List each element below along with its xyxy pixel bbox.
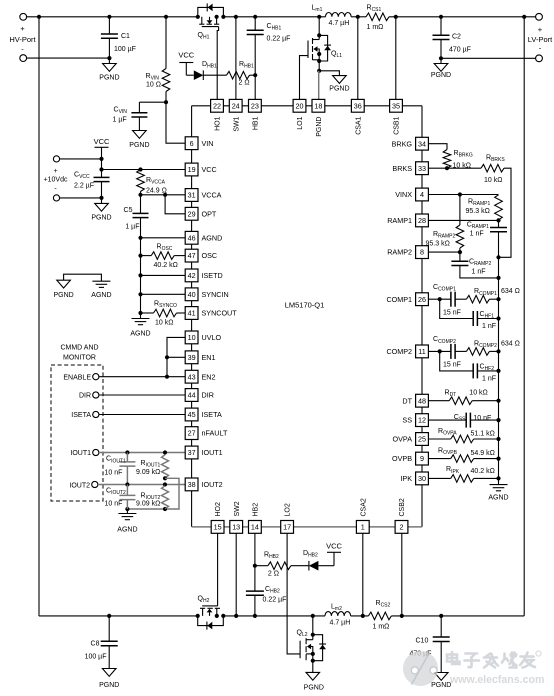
pin 29 OPT (left) xyxy=(185,207,217,220)
capacitor C2 470uF xyxy=(433,17,471,59)
pin 37 IOUT1 (left) xyxy=(185,446,222,459)
pin 20 LO1 (top) xyxy=(293,99,306,129)
svg-text:100 µF: 100 µF xyxy=(114,46,136,53)
svg-text:HO2: HO2 xyxy=(215,502,222,517)
svg-text:17: 17 xyxy=(283,523,291,532)
svg-text:9.09 kΩ: 9.09 kΩ xyxy=(136,469,160,476)
svg-text:34: 34 xyxy=(418,139,426,148)
pin 1 CSA2 (bottom) xyxy=(356,498,369,533)
svg-text:2.2 µF: 2.2 µF xyxy=(74,183,94,190)
node VIN junction xyxy=(164,100,168,104)
diode DHB1 xyxy=(186,61,217,80)
svg-text:EN1: EN1 xyxy=(202,353,216,362)
svg-text:LV-Port: LV-Port xyxy=(528,35,553,44)
svg-text:AGND: AGND xyxy=(488,495,508,502)
pin 44 DIR (left) xyxy=(185,389,214,402)
svg-text:+: + xyxy=(20,24,25,33)
wire HV- (PGND) from HV-Port to C1 xyxy=(27,56,112,60)
wire CSA2: pin 1 to rail xyxy=(362,533,364,616)
svg-text:1 nF: 1 nF xyxy=(482,323,496,330)
svg-text:HB1: HB1 xyxy=(253,116,260,130)
resistor ROVPB 54.9k xyxy=(428,447,500,462)
svg-text:PGND: PGND xyxy=(304,685,324,692)
svg-text:UVLO: UVLO xyxy=(202,333,222,342)
svg-text:PGND: PGND xyxy=(431,682,451,689)
resistor RDT 10k xyxy=(428,389,500,404)
svg-text:4: 4 xyxy=(420,190,424,199)
svg-text:LO2: LO2 xyxy=(285,503,292,516)
svg-text:10 kΩ: 10 kΩ xyxy=(484,177,502,184)
svg-text:40.2 kΩ: 40.2 kΩ xyxy=(471,468,495,475)
svg-text:14: 14 xyxy=(251,523,259,532)
svg-text:634 Ω: 634 Ω xyxy=(501,288,520,295)
wire VCCA to pin 31 xyxy=(138,193,185,197)
pin 34 BRKG (right) xyxy=(392,137,429,150)
svg-text:PGND: PGND xyxy=(329,86,349,93)
pin 10 UVLO (left) xyxy=(185,331,221,344)
port HV-Port xyxy=(9,13,36,61)
svg-text:CMMD AND: CMMD AND xyxy=(60,345,98,352)
svg-text:38: 38 xyxy=(188,480,196,489)
wire PGND to pin 18 xyxy=(318,71,320,100)
wire LV- from LV-Port to C2 xyxy=(441,57,536,59)
resistor RCS1 1mohm xyxy=(366,5,389,32)
svg-text:MONITOR: MONITOR xyxy=(63,355,96,362)
pin 36 CSA1 (top) xyxy=(351,99,364,134)
svg-text:VINX: VINX xyxy=(395,190,412,199)
pin 25 OVPA (right) xyxy=(393,433,429,446)
svg-text:11: 11 xyxy=(418,347,425,356)
svg-text:54.9 kΩ: 54.9 kΩ xyxy=(471,450,495,457)
svg-text:36: 36 xyxy=(354,101,362,110)
svg-text:OSC: OSC xyxy=(202,251,218,260)
resistor ROSC 40.2k xyxy=(138,244,185,270)
svg-text:634 Ω: 634 Ω xyxy=(501,340,520,347)
capacitor CHF1 1nF xyxy=(440,299,501,330)
pin 42 ISETD (left) xyxy=(185,269,222,282)
capacitor CVCC 2.2uF xyxy=(74,170,110,198)
wire VINX from pin 4 xyxy=(428,192,498,196)
node COMP1 junction xyxy=(428,297,451,301)
svg-text:IOUT1: IOUT1 xyxy=(202,448,223,457)
resistor RSYNCO 10k xyxy=(138,301,185,327)
wire HB2: pin 14 down xyxy=(253,533,257,591)
svg-text:10 Ω: 10 Ω xyxy=(146,82,161,89)
capacitor CHB2 0.22uF xyxy=(246,586,286,616)
transistor QH1 xyxy=(196,3,226,40)
svg-text:12: 12 xyxy=(418,416,426,425)
wire right AGND bus xyxy=(498,278,500,485)
pin 11 COMP2 (right) xyxy=(386,345,428,358)
svg-text:44: 44 xyxy=(188,391,196,400)
svg-text:15: 15 xyxy=(214,523,222,532)
ground tie PGND-AGND legend xyxy=(53,274,111,299)
svg-text:15 nF: 15 nF xyxy=(443,310,461,317)
ground PGND below C2 xyxy=(431,56,451,79)
svg-text:30: 30 xyxy=(418,474,426,483)
svg-text:10 kΩ: 10 kΩ xyxy=(469,389,487,396)
ground AGND analog bus xyxy=(130,319,150,338)
svg-text:100 µF: 100 µF xyxy=(85,654,107,661)
svg-text:51.1 kΩ: 51.1 kΩ xyxy=(471,431,495,438)
svg-text:C2: C2 xyxy=(452,34,461,41)
svg-text:AGND: AGND xyxy=(202,233,223,242)
pin 15 HO2 (bottom) xyxy=(211,502,224,533)
svg-text:1 µF: 1 µF xyxy=(125,224,139,231)
svg-text:28: 28 xyxy=(418,216,426,225)
svg-text:CSB2: CSB2 xyxy=(399,498,406,516)
wire OPT to pin 29 xyxy=(165,195,185,214)
pin 30 IPK (right) xyxy=(400,472,428,485)
node ISETA input xyxy=(71,411,185,419)
resistor RIOUT1 9.09k xyxy=(136,455,169,478)
svg-text:PGND: PGND xyxy=(91,215,111,222)
node AGND bus / RBRKS join xyxy=(496,255,500,259)
svg-text:+: + xyxy=(53,168,57,175)
pin 41 SYNCOUT (left) xyxy=(185,307,237,320)
resistor RIPK 40.2k xyxy=(428,466,500,482)
box CMMD AND MONITOR xyxy=(51,345,103,502)
svg-text:LO1: LO1 xyxy=(297,116,304,129)
wire RAMP2 from pin 8 xyxy=(428,250,462,254)
svg-text:VCC: VCC xyxy=(94,137,110,146)
svg-text:RAMP1: RAMP1 xyxy=(387,216,412,225)
capacitor CHB1 0.22uF xyxy=(247,17,291,75)
wire ISETD to pin 42 xyxy=(138,273,185,277)
pin 43 EN2 (left) xyxy=(185,370,215,383)
pin 23 HB1 (top) xyxy=(249,99,262,130)
svg-text:1 nF: 1 nF xyxy=(470,231,484,238)
svg-text:C5: C5 xyxy=(124,207,133,214)
svg-text:33: 33 xyxy=(418,164,426,173)
svg-text:SYNCIN: SYNCIN xyxy=(202,290,229,299)
pin 46 AGND (left) xyxy=(185,231,222,244)
svg-text:BRKG: BRKG xyxy=(392,139,413,148)
svg-text:35: 35 xyxy=(392,101,400,110)
pin 48 DT (right) xyxy=(402,394,428,407)
svg-text:AGND: AGND xyxy=(117,527,137,534)
pin 12 SS (right) xyxy=(402,414,428,427)
pin 9 OVPB (right) xyxy=(392,452,428,465)
pin 27 nFAULT (left) xyxy=(185,427,228,440)
svg-text:DT: DT xyxy=(402,396,412,405)
svg-text:1: 1 xyxy=(361,523,365,532)
resistor RBRKS 10k xyxy=(428,155,511,258)
svg-text:37: 37 xyxy=(188,448,196,457)
svg-text:4.7 µH: 4.7 µH xyxy=(329,20,350,27)
wire RIOUT1 to AGND bus xyxy=(125,476,179,511)
pin 31 VCCA (left) xyxy=(185,189,221,202)
svg-text:PGND: PGND xyxy=(99,75,119,82)
svg-text:OVPA: OVPA xyxy=(393,435,413,444)
svg-text:9.09 kΩ: 9.09 kΩ xyxy=(136,500,160,507)
svg-text:2 Ω: 2 Ω xyxy=(239,80,250,87)
capacitor CVIN 1uF xyxy=(113,102,167,130)
ground PGND below QL2 xyxy=(304,672,324,691)
power VCC for DHB1 xyxy=(178,51,194,76)
diode DHB2 xyxy=(303,550,334,571)
wire VCC node to pin 19 xyxy=(99,159,185,172)
svg-text:VCC: VCC xyxy=(178,51,194,60)
svg-text:+: + xyxy=(538,25,543,34)
pin 2 CSB2 (bottom) xyxy=(395,498,408,533)
pin 22 HO1 (top) xyxy=(211,99,224,131)
svg-text:40.2 kΩ: 40.2 kΩ xyxy=(154,262,178,269)
svg-text:45: 45 xyxy=(188,410,196,419)
svg-text:9: 9 xyxy=(420,454,424,463)
svg-text:HV-Port: HV-Port xyxy=(9,35,36,44)
pin 45 ISETA (left) xyxy=(185,408,222,421)
svg-text:10: 10 xyxy=(188,333,196,342)
svg-text:1 µF: 1 µF xyxy=(113,117,127,124)
op-amp U1 LM5170-Q1 IC body xyxy=(192,106,422,527)
svg-text:10 nF: 10 nF xyxy=(473,415,491,422)
svg-text:ENABLE: ENABLE xyxy=(63,374,91,381)
ground PGND below CVIN xyxy=(129,131,149,150)
node COMP2 junction xyxy=(428,349,451,353)
capacitor CCOMP2 15nF xyxy=(433,336,461,369)
pin 6 VIN (left) xyxy=(185,137,213,150)
wire AGND to pin 46 xyxy=(138,236,185,240)
svg-text:AGND: AGND xyxy=(130,331,150,338)
ground AGND IOUT networks xyxy=(117,509,137,534)
svg-text:0.22 µF: 0.22 µF xyxy=(267,36,291,43)
port +10Vdc supply xyxy=(44,156,68,201)
wire bottom rail xyxy=(39,614,524,618)
resistor RHB1 2ohm xyxy=(203,61,255,87)
svg-text:COMP2: COMP2 xyxy=(386,347,412,356)
resistor RCS2 1mohm xyxy=(368,600,391,631)
wire left HV+ bus xyxy=(38,17,40,615)
pin 17 LO2 (bottom) xyxy=(281,503,294,533)
svg-text:6: 6 xyxy=(190,139,194,148)
ground PGND below C10 xyxy=(431,673,451,690)
svg-text:29: 29 xyxy=(188,209,196,218)
wire HV+ top rail xyxy=(23,15,539,19)
wire CSA1: rail to pin 36 xyxy=(357,17,359,100)
svg-text:DIR: DIR xyxy=(202,391,214,400)
wire analog bus xyxy=(140,238,142,319)
svg-text:ISETD: ISETD xyxy=(202,271,223,280)
power VCC above CVCC xyxy=(94,137,110,159)
pin 14 HB2 (bottom) xyxy=(249,503,262,534)
svg-text:41: 41 xyxy=(188,309,196,318)
wire HO1: QH1 gate to pin 22 xyxy=(217,27,218,100)
svg-text:IPK: IPK xyxy=(400,474,412,483)
svg-text:IOUT1: IOUT1 xyxy=(70,450,91,457)
node IOUT2 output xyxy=(69,481,185,489)
node DIR input xyxy=(79,392,185,400)
inductor Lm2 4.7uH xyxy=(325,604,351,627)
svg-text:IOUT2: IOUT2 xyxy=(69,482,90,489)
capacitor CHF2 1nF xyxy=(440,351,501,382)
svg-text:10 nF: 10 nF xyxy=(105,470,123,477)
pin 47 OSC (left) xyxy=(185,249,217,262)
svg-text:19: 19 xyxy=(188,165,196,174)
svg-text:PGND: PGND xyxy=(431,72,451,79)
svg-text:VCC: VCC xyxy=(326,542,342,551)
pin 4 VINX (right) xyxy=(395,188,428,201)
wire HB1 to pin 23 xyxy=(254,75,256,99)
capacitor C10 470uF xyxy=(410,616,450,673)
svg-text:23: 23 xyxy=(251,101,259,110)
resistor ROVPA 51.1k xyxy=(428,428,500,443)
svg-text:PGND: PGND xyxy=(99,682,119,689)
svg-text:22: 22 xyxy=(213,101,221,110)
svg-text:CSB1: CSB1 xyxy=(394,116,401,134)
wire CSB2: pin 2 to rail xyxy=(401,533,403,616)
resistor RRAMP1 95.3k xyxy=(466,195,503,220)
svg-text:RAMP2: RAMP2 xyxy=(387,248,412,257)
svg-text:26: 26 xyxy=(418,295,426,304)
svg-text:HB2: HB2 xyxy=(253,503,260,517)
capacitor CRAMP1 1nF xyxy=(467,220,507,278)
wire RAMP1 from pin 28 xyxy=(428,218,500,222)
capacitor C1 100uF xyxy=(101,17,136,58)
pin 28 RAMP1 (right) xyxy=(387,214,428,227)
svg-text:10 kΩ: 10 kΩ xyxy=(155,320,173,327)
svg-text:C8: C8 xyxy=(91,641,100,648)
pin 8 RAMP2 (right) xyxy=(387,246,428,259)
pin 38 IOUT2 (left) xyxy=(185,478,222,491)
svg-text:4.7 µH: 4.7 µH xyxy=(330,620,351,627)
ground AGND right bus xyxy=(488,485,508,502)
svg-text:2 Ω: 2 Ω xyxy=(268,571,279,578)
svg-text:VCCA: VCCA xyxy=(202,191,222,200)
svg-text:VCC: VCC xyxy=(202,165,217,174)
svg-text:www.elecfans.com: www.elecfans.com xyxy=(449,674,544,686)
ground PGND at QL1 source xyxy=(319,71,349,93)
svg-text:20: 20 xyxy=(296,101,304,110)
svg-text:39: 39 xyxy=(188,353,196,362)
svg-text:IOUT2: IOUT2 xyxy=(202,480,223,489)
svg-text:PGND: PGND xyxy=(53,292,73,299)
capacitor C8 100uF xyxy=(85,616,118,669)
wire +10Vdc- to CVCC bottom xyxy=(60,196,104,200)
svg-text:43: 43 xyxy=(188,372,196,381)
pin 35 CSB1 (top) xyxy=(390,99,403,134)
ground PGND below C1 xyxy=(99,58,119,81)
svg-text:25: 25 xyxy=(418,435,426,444)
wire LO2: pin 17 to QL2 gate xyxy=(287,533,300,654)
svg-text:2: 2 xyxy=(400,523,404,532)
ground PGND below CVCC xyxy=(91,198,111,222)
svg-text:1 mΩ: 1 mΩ xyxy=(373,624,390,631)
svg-text:15 nF: 15 nF xyxy=(443,362,461,369)
svg-text:13: 13 xyxy=(232,523,240,532)
inductor Lm1 4.7uH xyxy=(312,5,352,28)
node HB1: junction RHB1/CHB1 xyxy=(253,73,257,77)
svg-text:HO1: HO1 xyxy=(215,116,222,131)
svg-text:ISETA: ISETA xyxy=(71,412,91,419)
svg-text:ISETA: ISETA xyxy=(202,410,222,419)
svg-text:1 nF: 1 nF xyxy=(482,375,496,382)
svg-text:40: 40 xyxy=(188,290,196,299)
resistor RVIN 10ohm xyxy=(146,17,170,102)
svg-text:SW2: SW2 xyxy=(234,501,241,516)
wire SYNCIN to pin 40 xyxy=(138,292,185,296)
svg-text:27: 27 xyxy=(188,429,196,438)
svg-text:PGND: PGND xyxy=(129,142,149,149)
svg-text:8: 8 xyxy=(420,248,424,257)
svg-text:OPT: OPT xyxy=(202,209,217,218)
pin 26 COMP1 (right) xyxy=(386,293,428,306)
transistor QL2 xyxy=(297,616,327,673)
pin 33 BRKS (right) xyxy=(392,162,428,175)
svg-text:OVPB: OVPB xyxy=(392,454,412,463)
wire right LV+ bus xyxy=(523,17,525,616)
svg-text:SS: SS xyxy=(402,416,412,425)
svg-text:1 nF: 1 nF xyxy=(472,269,486,276)
power VCC for DHB2 xyxy=(326,542,342,566)
svg-text:C10: C10 xyxy=(416,638,429,645)
svg-text:CSA2: CSA2 xyxy=(360,498,367,516)
svg-text:COMP1: COMP1 xyxy=(386,295,412,304)
wire SW1: rail to pin 24 xyxy=(235,17,237,100)
node ENABLE input xyxy=(63,374,185,382)
pin 40 SYNCIN (left) xyxy=(185,288,228,301)
pin 19 VCC (left) xyxy=(185,163,216,176)
pin 39 EN1 (left) xyxy=(185,351,215,364)
svg-text:95.3 kΩ: 95.3 kΩ xyxy=(426,240,450,247)
resistor RCOMP1 634ohm xyxy=(455,288,520,303)
svg-text:SYNCOUT: SYNCOUT xyxy=(202,309,238,318)
pin 13 SW2 (bottom) xyxy=(230,501,243,533)
transistor QL1 xyxy=(300,17,343,100)
svg-text:EN2: EN2 xyxy=(202,372,216,381)
resistor RVCCA 24.9ohm xyxy=(137,170,167,195)
resistor RCOMP2 634ohm xyxy=(455,340,520,355)
svg-text:+10Vdc: +10Vdc xyxy=(44,177,68,184)
svg-text:46: 46 xyxy=(188,233,196,242)
resistor RHB2 2ohm xyxy=(255,552,309,578)
capacitor CCOMP1 15nF xyxy=(433,284,461,317)
pin 18 PGND (top) xyxy=(312,99,325,136)
watermark logo (decor skipped from labeling) xyxy=(403,651,544,686)
svg-text:18: 18 xyxy=(314,101,322,110)
svg-text:95.3 kΩ: 95.3 kΩ xyxy=(466,208,490,215)
capacitor CIOUT2 10nF xyxy=(105,485,136,510)
wire UVLO/EN1/EN2 tie xyxy=(165,337,185,378)
svg-text:1 mΩ: 1 mΩ xyxy=(367,24,384,31)
svg-text:48: 48 xyxy=(418,396,426,405)
svg-text:42: 42 xyxy=(188,271,196,280)
svg-text:LM5170-Q1: LM5170-Q1 xyxy=(285,301,325,310)
wire +10Vdc+ to VCC node xyxy=(60,157,104,161)
svg-text:C1: C1 xyxy=(121,33,130,40)
capacitor CSS 10nF xyxy=(428,413,500,428)
wire VIN to pin 6 xyxy=(166,102,185,143)
node IOUT1 output xyxy=(70,449,185,457)
svg-text:CSA1: CSA1 xyxy=(355,116,362,134)
svg-text:SW1: SW1 xyxy=(233,116,240,131)
resistor RBRKG 10k xyxy=(428,144,472,170)
svg-text:DIR: DIR xyxy=(79,393,91,400)
svg-text:0.22 µF: 0.22 µF xyxy=(263,597,287,604)
svg-text:470 µF: 470 µF xyxy=(449,47,471,54)
svg-text:31: 31 xyxy=(188,191,196,200)
capacitor CRAMP2 1nF xyxy=(451,252,500,280)
port LV-Port xyxy=(528,13,553,61)
svg-text:24: 24 xyxy=(232,101,240,110)
resistor RIOUT2 9.09k xyxy=(136,486,169,509)
capacitor C5 1uF xyxy=(124,195,149,238)
wire CSB1: rail to pin 35 xyxy=(395,17,397,100)
svg-text:VIN: VIN xyxy=(202,139,214,148)
wire SW2: pin 13 to rail xyxy=(235,533,237,616)
svg-text:PGND: PGND xyxy=(316,117,323,137)
resistor RRAMP2 95.3k xyxy=(426,195,464,253)
